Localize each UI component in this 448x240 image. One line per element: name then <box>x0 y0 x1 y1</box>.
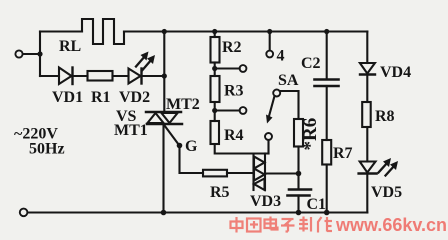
LED VD5 arrows <box>379 158 399 176</box>
node top rail at MT2 column <box>162 29 167 34</box>
svg-text:C1: C1 <box>307 196 327 213</box>
wire top rail corner to VD4 <box>366 32 368 64</box>
wire C2 to R7 <box>326 86 328 140</box>
svg-text:50Hz: 50Hz <box>29 141 65 158</box>
char zhong <box>231 217 243 233</box>
wire VD3 to node <box>265 172 299 174</box>
switch SA arm with arrow <box>266 96 275 124</box>
svg-text:4: 4 <box>277 48 285 65</box>
diac VD3 <box>254 154 266 191</box>
wire C1 top <box>297 174 299 190</box>
svg-text:R1: R1 <box>91 89 111 106</box>
relay coil RL <box>82 19 124 44</box>
resistor R3 <box>211 76 220 102</box>
diode VD1 <box>59 68 73 85</box>
wire lower branch to VD1 <box>40 75 59 77</box>
triac VS <box>146 112 182 124</box>
terminal tap 2 <box>240 107 247 114</box>
svg-text:VD1: VD1 <box>52 89 83 106</box>
svg-text:R4: R4 <box>224 127 244 144</box>
wire R6 bottom <box>297 147 299 174</box>
node junction left <box>37 51 42 56</box>
svg-text:SA: SA <box>278 72 299 89</box>
node top rail at C2 column <box>324 29 329 34</box>
wire terminal 4 drop <box>269 32 271 51</box>
svg-text:C2: C2 <box>301 55 321 72</box>
wire top rail <box>124 30 367 32</box>
resistor R2 <box>211 37 220 63</box>
svg-text:R7: R7 <box>333 145 353 162</box>
char zuo <box>318 217 332 233</box>
wire C1 bottom <box>297 196 299 213</box>
LED VD2 <box>129 69 142 84</box>
wire R2 to R3 <box>214 63 216 77</box>
wire MT1 lead <box>162 124 164 213</box>
svg-text:MT1: MT1 <box>114 122 148 139</box>
wire MT2 lead <box>163 32 165 113</box>
wire VD5 bottom <box>366 174 368 213</box>
resistor R4 <box>211 121 220 144</box>
capacitor C1 <box>288 190 312 196</box>
wire R1 to VD2 <box>113 75 129 77</box>
wire bottom rail <box>28 211 367 213</box>
wire VD2 to node <box>142 75 165 77</box>
svg-text:VD5: VD5 <box>371 184 402 201</box>
svg-text:MT2: MT2 <box>166 96 200 113</box>
svg-text:R3: R3 <box>224 83 244 100</box>
node bottom rail MT1 <box>161 210 167 216</box>
wire SA fixed contact down <box>267 140 269 154</box>
svg-text:RL: RL <box>59 38 81 55</box>
svg-text:G: G <box>185 138 198 155</box>
switch SA fixed contact <box>265 133 272 140</box>
wire R4 bottom to VD3 top node <box>215 144 269 154</box>
wire gate down <box>180 146 204 174</box>
wire R3 to R4 <box>214 102 216 121</box>
svg-text:R8: R8 <box>375 108 395 125</box>
wire R7 bottom <box>326 165 328 213</box>
wire top rail left <box>40 30 82 32</box>
wire tap 1 stub <box>215 67 240 69</box>
resistor R7 <box>322 140 331 165</box>
char zhi <box>299 217 311 232</box>
wire left vertical branch <box>39 32 41 77</box>
resistor R8 <box>362 102 371 127</box>
node G <box>177 143 183 149</box>
node VD2 output <box>162 73 167 78</box>
wire VD4 to R8 <box>366 75 368 103</box>
char zi <box>281 219 295 232</box>
char dian <box>265 217 278 230</box>
char guo <box>247 219 261 232</box>
LED VD2 arrows <box>136 52 155 71</box>
terminal 4 <box>266 51 273 58</box>
capacitor C2 <box>315 80 339 87</box>
resistor R5 <box>203 170 227 177</box>
diode VD4 <box>360 63 375 75</box>
node bottom rail R7 <box>324 210 330 216</box>
terminal lower-left <box>20 209 28 217</box>
resistor R1 <box>88 71 113 81</box>
wire VD1 to R1 <box>73 75 88 77</box>
wire terminal to node <box>23 53 40 55</box>
svg-text:R2: R2 <box>222 39 242 56</box>
node tap 1 <box>212 66 217 71</box>
wire gate diagonal <box>165 126 180 146</box>
wire tap 2 stub <box>215 109 240 111</box>
node top rail at terminal 4 <box>267 29 272 34</box>
svg-text:*R6: *R6 <box>300 118 321 151</box>
terminal upper-left <box>15 50 22 57</box>
node R6/C1/VD3 <box>296 171 302 177</box>
svg-text:VD2: VD2 <box>119 89 150 106</box>
wire R5 to VD3 <box>227 172 254 174</box>
wire R2 column top <box>214 32 216 38</box>
svg-text:www.66kv.cn: www.66kv.cn <box>335 215 447 235</box>
wire R8 to VD5 <box>366 127 368 162</box>
switch SA moving contact <box>273 90 280 97</box>
node tap 2 <box>212 108 217 113</box>
svg-text:VD4: VD4 <box>380 64 411 81</box>
node top rail at R2 column <box>212 29 217 34</box>
wire SA to R6 <box>280 91 299 119</box>
wire C2 top <box>326 32 328 80</box>
terminal tap 1 <box>240 65 247 72</box>
svg-text:R5: R5 <box>210 184 230 201</box>
svg-text:VD3: VD3 <box>250 193 281 210</box>
node bottom rail C1 <box>296 210 302 216</box>
watermark chinese characters <box>231 217 333 233</box>
resistor R6 <box>294 119 303 147</box>
LED VD5 <box>359 162 377 174</box>
